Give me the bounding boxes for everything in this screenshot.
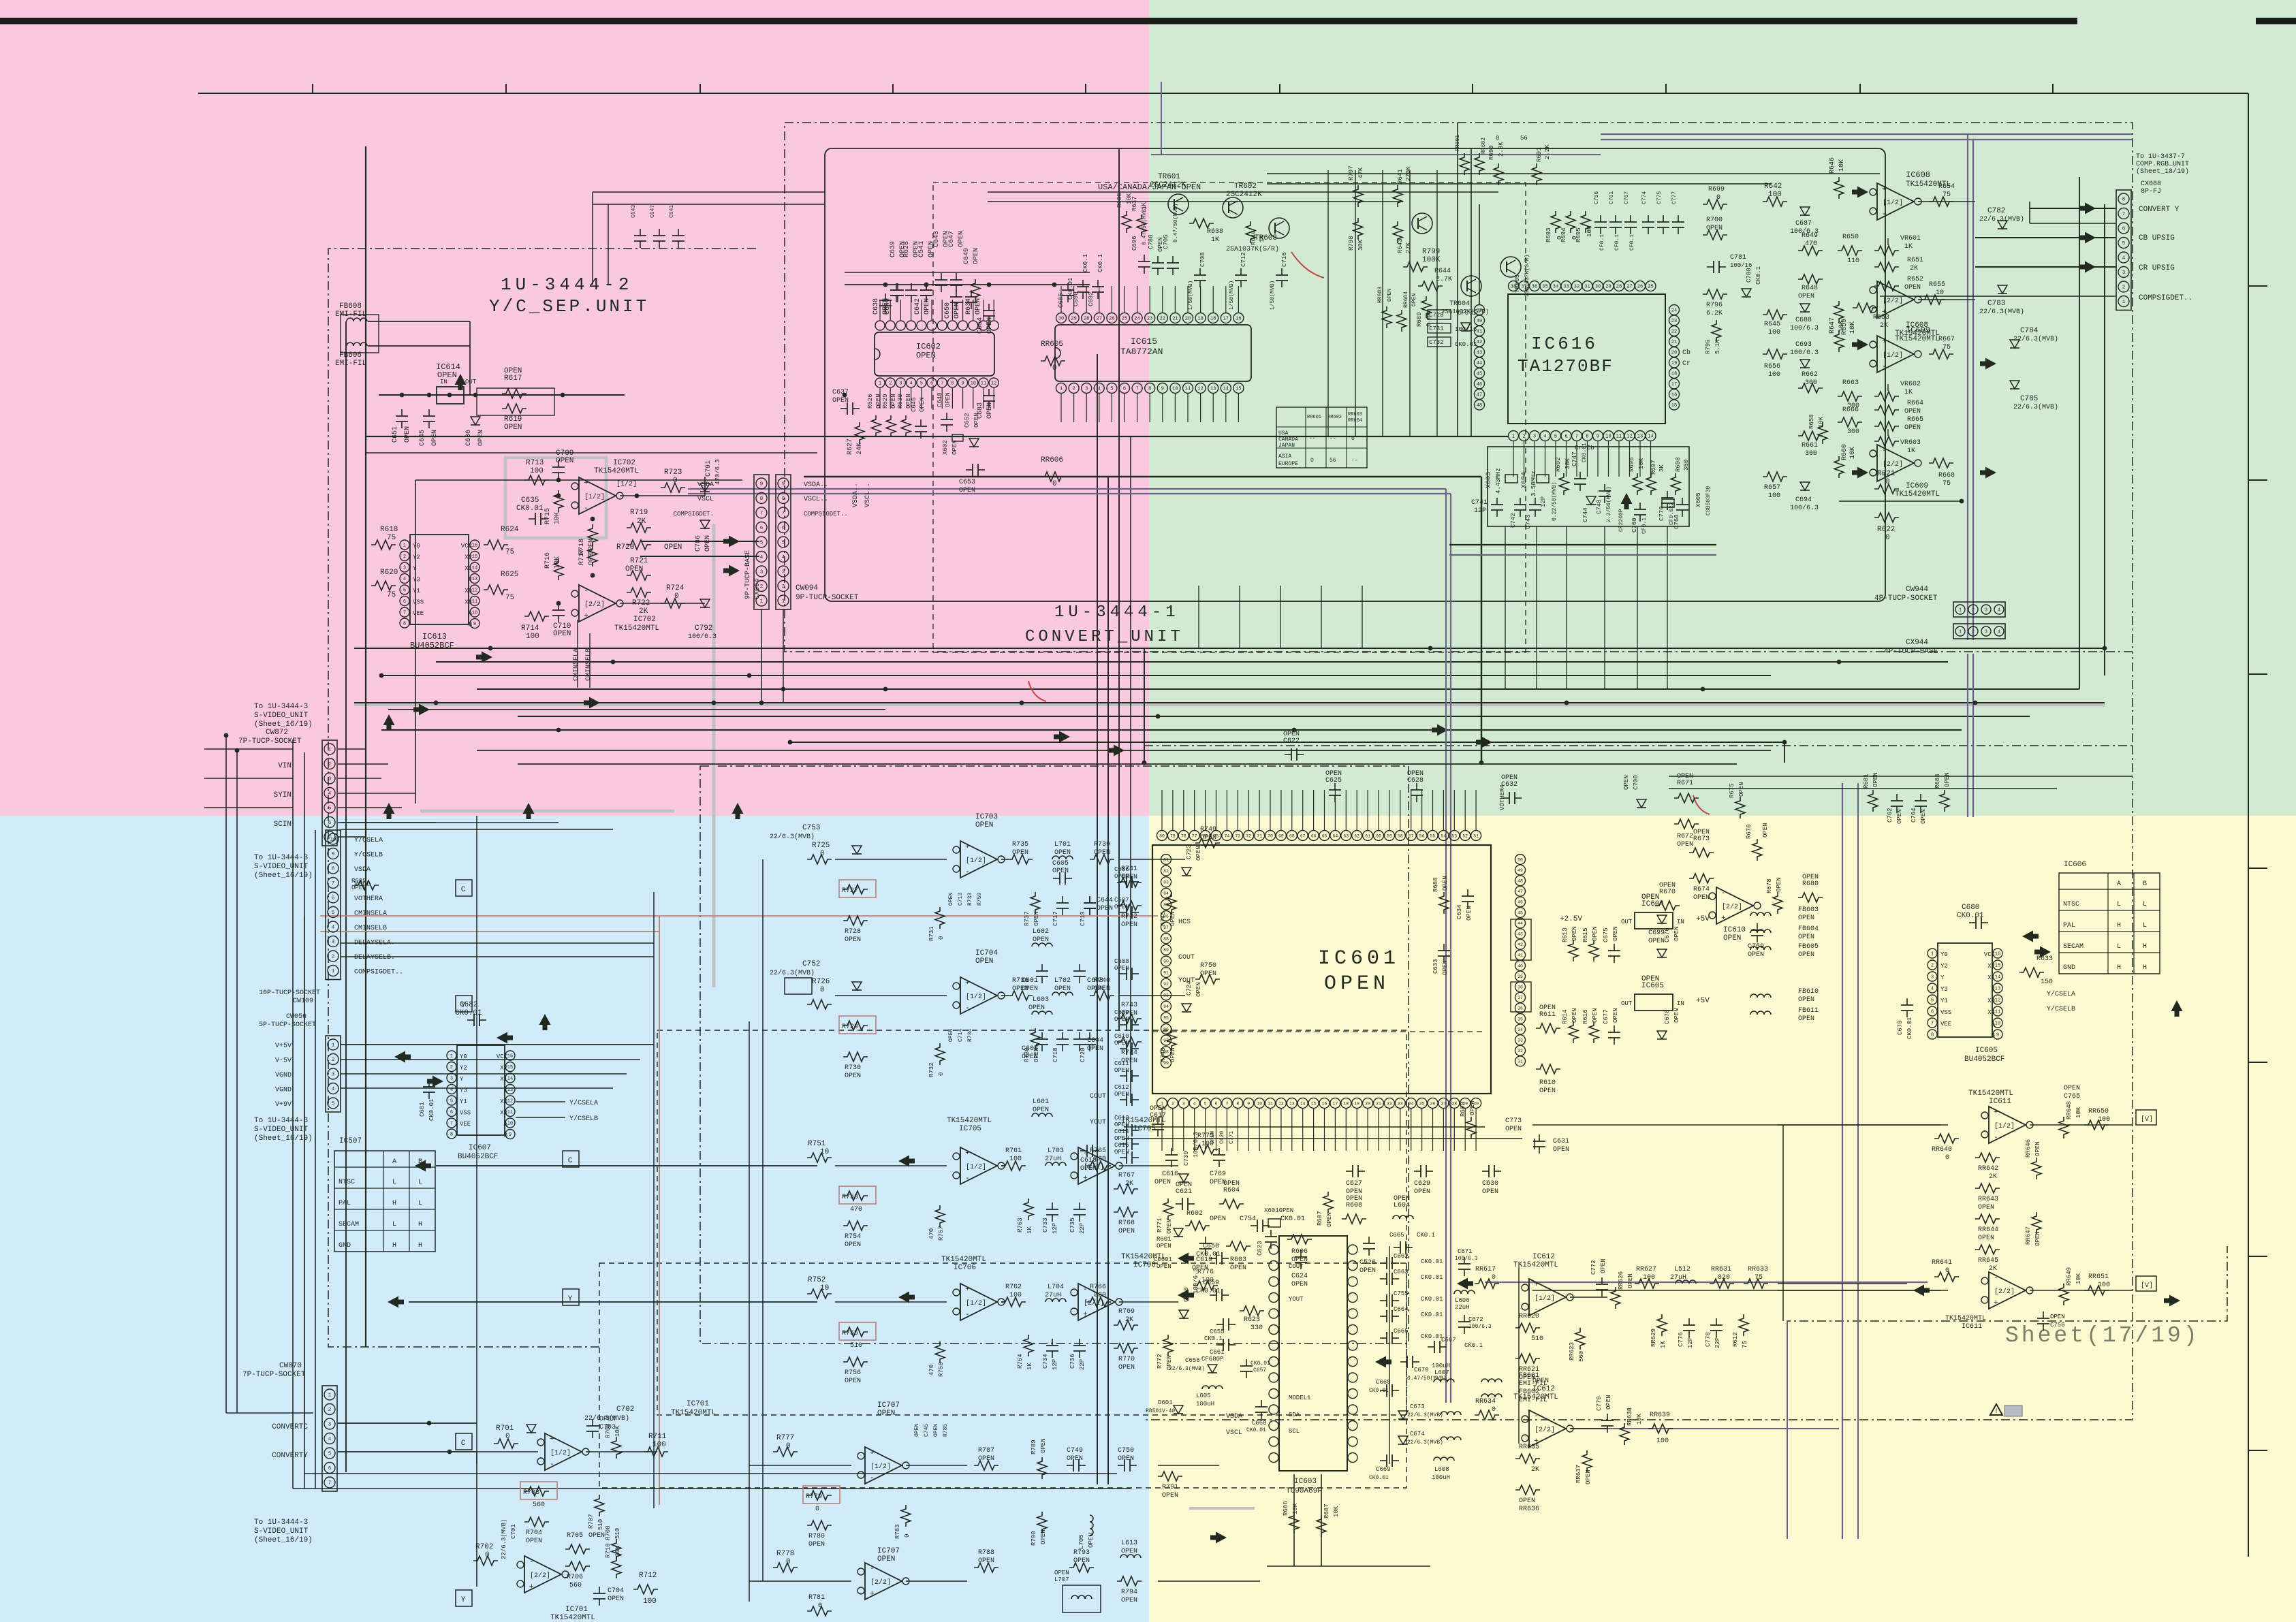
- svg-text:R643: R643: [1397, 238, 1404, 253]
- svg-text:38: 38: [1517, 985, 1523, 990]
- ruler tick top 2: [505, 84, 507, 93]
- svg-text:21: 21: [1671, 340, 1677, 345]
- svg-text:RR629: RR629: [1650, 1329, 1657, 1347]
- svg-text:R651: R651: [1907, 257, 1923, 264]
- svg-text:R608: R608: [1346, 1202, 1362, 1209]
- resistor R637 v: [1137, 214, 1146, 236]
- svg-text:R612: R612: [1732, 1332, 1739, 1347]
- resistor R717 vertical: [588, 524, 597, 546]
- svg-text:150: 150: [2041, 979, 2053, 986]
- svg-text:R697: R697: [1650, 460, 1657, 475]
- svg-text:12: 12: [991, 381, 996, 387]
- svg-text:C785: C785: [2020, 395, 2038, 403]
- svg-text:IC706: IC706: [954, 1264, 976, 1272]
- svg-text:5: 5: [332, 1102, 335, 1107]
- svg-text:C761: C761: [1609, 191, 1615, 204]
- svg-text:1: 1: [782, 599, 785, 605]
- svg-text:OPEN: OPEN: [1920, 809, 1927, 824]
- IC601 bottom pin 20: [1363, 1098, 1373, 1109]
- IC607 right pin 16: [505, 1051, 515, 1060]
- svg-text:OPEN: OPEN: [1539, 1004, 1556, 1012]
- capacitor C615: [1120, 1157, 1127, 1158]
- svg-text:OPEN: OPEN: [1080, 1165, 1097, 1173]
- svg-text:2SC2412K: 2SC2412K: [1150, 181, 1186, 189]
- svg-text:0: 0: [820, 850, 825, 858]
- svg-text:0.22/50(MVB): 0.22/50(MVB): [1552, 481, 1558, 521]
- purple green mid: [1151, 154, 1601, 155]
- svg-text:10K: 10K: [1838, 159, 1846, 172]
- IC603 left pin 14: [1269, 1453, 1278, 1463]
- capacitor C778 v: [1716, 1318, 1717, 1325]
- svg-text:RR637: RR637: [1575, 1465, 1582, 1483]
- svg-text:IC608: IC608: [1906, 170, 1930, 180]
- svg-text:46: 46: [1477, 382, 1482, 387]
- resistor R730: [843, 1052, 868, 1062]
- svg-text:R758: R758: [938, 1362, 945, 1377]
- svg-text:10K: 10K: [2075, 1107, 2082, 1118]
- svg-text:R625: R625: [501, 571, 518, 579]
- svg-text:OPEN: OPEN: [1346, 1188, 1362, 1196]
- wire IC603 bottom: [1293, 1474, 1295, 1566]
- capacitor C654: [988, 304, 990, 311]
- svg-text:22/6.3(MVB): 22/6.3(MVB): [770, 833, 815, 841]
- svg-text:100: 100: [652, 1441, 666, 1449]
- svg-text:15: 15: [472, 554, 477, 560]
- IC601 top pin 63: [1341, 831, 1351, 841]
- resistor R618: [371, 540, 396, 550]
- svg-text:C687: C687: [1795, 220, 1812, 227]
- svg-text:100/6.3: 100/6.3: [1790, 324, 1819, 332]
- svg-text:CF0.1: CF0.1: [1641, 518, 1648, 534]
- svg-text:16: 16: [1995, 952, 2000, 957]
- coil L601: [1032, 1113, 1052, 1117]
- resistor R613 v: [1569, 940, 1578, 961]
- wire row IC705: [835, 1165, 947, 1166]
- svg-text:1: 1: [1959, 630, 1962, 635]
- resistor R706: [565, 1561, 590, 1571]
- svg-text:OPEN: OPEN: [1359, 1267, 1376, 1275]
- IC601 bottom pin 25: [1417, 1098, 1427, 1109]
- wire main top2: [366, 452, 817, 454]
- svg-text:R772: R772: [1157, 1354, 1163, 1369]
- svg-text:90: 90: [1163, 959, 1169, 964]
- svg-text:IC701: IC701: [565, 1606, 588, 1614]
- svg-text:16: 16: [472, 543, 477, 549]
- resistor R629: [886, 415, 896, 437]
- svg-text:R658: R658: [1808, 414, 1815, 429]
- svg-text:EUROPE: EUROPE: [1278, 461, 1298, 467]
- svg-text:6: 6: [1215, 1101, 1218, 1106]
- capacitor C678 v: [1657, 1031, 1667, 1039]
- svg-text:82: 82: [1163, 869, 1169, 874]
- op-amp IC702b: [579, 585, 616, 622]
- IC601 top pin 67: [1298, 831, 1308, 841]
- pot VR603: [1874, 436, 1899, 446]
- connector CW944: [1953, 602, 2005, 617]
- IC601 right pin 32: [1515, 1045, 1526, 1055]
- bus arrow 6: [1476, 737, 1492, 748]
- svg-text:41: 41: [1517, 953, 1523, 958]
- svg-text:OPEN: OPEN: [2064, 1085, 2080, 1092]
- svg-text:C: C: [461, 1440, 466, 1448]
- svg-text:RR601: RR601: [1307, 415, 1321, 420]
- top border bar left: [0, 18, 2077, 25]
- svg-text:27: 27: [1441, 1101, 1446, 1106]
- svg-text:+: +: [870, 1590, 875, 1598]
- capacitor C755: [1380, 1300, 1387, 1301]
- wire blue arrows: [436, 1165, 817, 1166]
- capacitor C616: [1171, 1148, 1172, 1155]
- capacitor C708: [1199, 268, 1201, 275]
- svg-text:IC703: IC703: [975, 813, 998, 821]
- svg-text:100uH: 100uH: [1432, 1474, 1450, 1481]
- svg-text:[V]: [V]: [2141, 1282, 2153, 1290]
- svg-text:C678: C678: [1664, 1009, 1671, 1024]
- svg-text:100: 100: [1768, 492, 1780, 500]
- svg-text:SCIN: SCIN: [274, 821, 292, 829]
- IC616 top pin 32: [1572, 281, 1582, 291]
- bus wire 7: [381, 729, 1962, 731]
- capacitor C625: [1334, 783, 1336, 790]
- svg-text:93: 93: [1163, 993, 1169, 998]
- IC613 left pin 1: [400, 540, 409, 550]
- capacitor C642: [926, 283, 927, 290]
- EMI filter FB606: [347, 343, 367, 346]
- IC601 top pin 52: [1460, 831, 1471, 841]
- svg-text:C675: C675: [1603, 927, 1609, 942]
- arrow up CW872 c: [523, 803, 535, 819]
- IC602 top pin 8: [947, 321, 957, 330]
- svg-text:5: 5: [328, 806, 332, 812]
- svg-text:R704: R704: [526, 1529, 542, 1537]
- red mark 3: [1693, 795, 1710, 814]
- svg-text:TR602: TR602: [1234, 182, 1257, 191]
- diode D601: [1174, 1405, 1183, 1414]
- svg-text:0: 0: [1496, 135, 1499, 142]
- svg-text:69: 69: [1278, 833, 1284, 838]
- svg-text:Y2: Y2: [460, 1065, 467, 1072]
- resistor R720: [627, 540, 651, 550]
- ruler tick top 7: [1472, 84, 1473, 93]
- svg-text:39: 39: [1477, 308, 1482, 314]
- svg-text:12P: 12P: [1540, 496, 1547, 507]
- wire mid vertical 1: [1097, 354, 1098, 1484]
- svg-text:L: L: [392, 1179, 396, 1186]
- svg-text:OPEN: OPEN: [845, 936, 861, 944]
- IC601 bottom pin 4: [1189, 1098, 1199, 1109]
- resistor RR648 v: [2059, 1117, 2069, 1139]
- capacitor C724: [1182, 1004, 1191, 1012]
- svg-text:CF0.1: CF0.1: [1614, 234, 1620, 251]
- wire blue bottom 2: [304, 1473, 1117, 1474]
- svg-text:A: A: [469, 610, 473, 617]
- svg-text:R655: R655: [1929, 281, 1945, 289]
- svg-text:R755: R755: [842, 1330, 858, 1337]
- svg-text:X2: X2: [1987, 963, 1995, 970]
- svg-text:13: 13: [1289, 1101, 1295, 1106]
- svg-text:Y/CSELA: Y/CSELA: [2047, 990, 2075, 998]
- svg-text:56: 56: [1520, 135, 1528, 142]
- capacitor C656: [1208, 1365, 1217, 1373]
- IC601 right pin 46: [1515, 897, 1526, 907]
- IC616 bottom pin 2: [1519, 431, 1529, 441]
- svg-text:S-VIDEO_UNIT: S-VIDEO_UNIT: [254, 712, 309, 720]
- svg-text:R787: R787: [978, 1447, 994, 1454]
- svg-text:CB UPSIG: CB UPSIG: [2139, 234, 2175, 242]
- svg-text:R737: R737: [1024, 911, 1031, 926]
- capacitor C668: [1380, 1390, 1387, 1391]
- IC606 table: [2059, 873, 2160, 974]
- svg-text:75: 75: [1943, 191, 1951, 199]
- svg-text:IC702: IC702: [633, 616, 656, 624]
- svg-text:4: 4: [909, 381, 912, 387]
- svg-text:VSS: VSS: [1940, 1009, 1951, 1016]
- svg-text:COMPSIGDET.: COMPSIGDET.: [674, 511, 714, 518]
- svg-text:58: 58: [1398, 833, 1403, 838]
- svg-text:13: 13: [1637, 434, 1643, 440]
- gray bus shadow 2: [712, 524, 716, 987]
- svg-text:VR603: VR603: [1900, 439, 1921, 447]
- IC601 left pin 82: [1161, 865, 1171, 876]
- IC607 right pin 9: [505, 1130, 515, 1139]
- svg-text:S-VIDEO_UNIT: S-VIDEO_UNIT: [254, 1126, 309, 1134]
- svg-text:COMPSIGDET..: COMPSIGDET..: [354, 969, 403, 976]
- capacitor C659: [1210, 1294, 1216, 1296]
- svg-text:C717: C717: [1052, 911, 1059, 926]
- IC602 bottom pin 4: [907, 378, 916, 387]
- svg-text:4: 4: [1543, 434, 1546, 440]
- resistor R769: [1114, 1320, 1138, 1330]
- svg-text:IC607: IC607: [469, 1144, 491, 1152]
- resistor R732 v: [935, 1043, 945, 1065]
- svg-text:C662: C662: [1394, 1253, 1409, 1260]
- svg-text:38: 38: [1511, 285, 1516, 290]
- IC616 top pin 33: [1561, 281, 1571, 291]
- svg-text:ASIA: ASIA: [1278, 454, 1291, 460]
- capacitor C648: [946, 413, 947, 419]
- IC601 bottom pin 19: [1352, 1098, 1362, 1109]
- ruler tick top 9: [1859, 84, 1861, 93]
- svg-text:OPEN: OPEN: [1087, 1045, 1103, 1053]
- svg-text:16: 16: [507, 1054, 513, 1060]
- resistor R643 v: [1393, 221, 1402, 243]
- IC601 bottom pin 5: [1200, 1098, 1210, 1109]
- arrow left C658: [1178, 1253, 1194, 1265]
- svg-text:R793: R793: [1073, 1549, 1090, 1557]
- svg-text:[V]: [V]: [2141, 1115, 2153, 1124]
- svg-text:C642: C642: [914, 298, 922, 315]
- svg-text:+: +: [1994, 1299, 1998, 1307]
- svg-text:Y: Y: [413, 565, 417, 572]
- IC615 bottom pin 1: [1056, 383, 1067, 394]
- crystal X604: [1537, 475, 1549, 483]
- svg-text:100: 100: [1009, 1156, 1022, 1163]
- capacitor C606: [1120, 881, 1127, 882]
- svg-text:C659: C659: [1203, 1279, 1219, 1287]
- svg-text:VSDA: VSDA: [354, 866, 371, 874]
- svg-text:C705: C705: [1163, 234, 1169, 249]
- svg-text:OPEN: OPEN: [1067, 1455, 1083, 1463]
- svg-text:CX944: CX944: [1906, 639, 1928, 647]
- regulator IC614: [437, 387, 464, 404]
- svg-text:100/6.3: 100/6.3: [1790, 349, 1819, 357]
- svg-text:H: H: [418, 1221, 422, 1228]
- svg-text:9P-TUCP-BASE: 9P-TUCP-BASE: [744, 550, 752, 599]
- svg-text:C654: C654: [977, 317, 984, 334]
- svg-text:66: 66: [1311, 833, 1317, 838]
- IC615 top pin 28: [1082, 313, 1092, 323]
- transistor TR602: [1223, 197, 1243, 218]
- svg-text:R628: R628: [903, 241, 911, 257]
- svg-text:OPEN: OPEN: [556, 457, 573, 465]
- svg-text:5: 5: [450, 1099, 453, 1104]
- svg-text:IC609: IC609: [1906, 325, 1930, 335]
- svg-text:R724: R724: [666, 584, 685, 592]
- svg-text:RR606: RR606: [1041, 456, 1063, 464]
- connector CX088: [2116, 190, 2131, 311]
- capacitor C719 v: [1089, 896, 1090, 903]
- inner rounded block boundary: [825, 148, 1885, 601]
- resistor R780: [807, 1521, 832, 1530]
- svg-text:34: 34: [1553, 285, 1558, 290]
- capacitor C704: [599, 1587, 600, 1593]
- op-amp IC706a: [960, 1284, 997, 1320]
- svg-text:11: 11: [472, 599, 477, 605]
- wire mid vertical 3: [1118, 148, 1120, 1030]
- coil L602: [1032, 943, 1052, 947]
- svg-text:-: -: [965, 1175, 970, 1183]
- capacitor C747: [1579, 472, 1581, 479]
- svg-text:Y/CSELA: Y/CSELA: [569, 1099, 598, 1107]
- svg-text:5: 5: [920, 381, 923, 387]
- capacitor C526: [1368, 1237, 1370, 1243]
- resistor R615 v: [1589, 940, 1599, 961]
- svg-text:86: 86: [1163, 914, 1169, 919]
- IC601 bottom pin 23: [1395, 1098, 1405, 1109]
- svg-text:95: 95: [1163, 1016, 1169, 1021]
- svg-text:6: 6: [332, 896, 335, 902]
- svg-text:7: 7: [1575, 434, 1578, 440]
- svg-text:20: 20: [1671, 351, 1677, 356]
- svg-text:2: 2: [1522, 434, 1525, 440]
- IC603 left pin 1: [1269, 1245, 1278, 1254]
- IC615 bottom pin 4: [1094, 383, 1104, 394]
- svg-text:IC601: IC601: [1318, 947, 1400, 970]
- svg-text:C615: C615: [1114, 1142, 1129, 1149]
- wire row IC703: [835, 859, 947, 860]
- svg-text:C649: C649: [963, 248, 971, 264]
- resistor R621: [1874, 484, 1899, 494]
- capacitor C612: [1120, 1099, 1127, 1100]
- coil L707 box: [1063, 1585, 1101, 1612]
- capacitor C748: [1604, 484, 1605, 491]
- svg-text:R768: R768: [1118, 1220, 1135, 1227]
- svg-text:4: 4: [1931, 987, 1934, 992]
- wire green down1: [1457, 123, 1458, 436]
- IC601 bottom pin 26: [1428, 1098, 1438, 1109]
- green quadrant background: [1149, 0, 2296, 816]
- svg-text:10K: 10K: [1292, 1503, 1299, 1514]
- svg-text:RR603: RR603: [1377, 287, 1383, 303]
- svg-text:VSS: VSS: [460, 1110, 471, 1117]
- IC601 bottom pin 17: [1330, 1098, 1340, 1109]
- svg-text:9P-TUCP-SOCKET: 9P-TUCP-SOCKET: [796, 594, 859, 602]
- IC603 left pin 10: [1269, 1389, 1278, 1399]
- svg-text:36: 36: [1517, 1006, 1523, 1011]
- svg-text:OPEN: OPEN: [1118, 1455, 1134, 1463]
- svg-text:C638: C638: [872, 298, 880, 315]
- svg-text:OPEN: OPEN: [808, 1541, 825, 1548]
- svg-text:C713: C713: [958, 893, 964, 906]
- svg-text:R624: R624: [501, 526, 519, 534]
- capacitor C601: [1041, 964, 1043, 971]
- svg-text:0: 0: [938, 936, 945, 940]
- resistor R723: [661, 483, 685, 492]
- svg-text:7: 7: [1135, 387, 1138, 392]
- svg-text:13: 13: [507, 1087, 513, 1093]
- svg-text:OPEN: OPEN: [1114, 1122, 1129, 1128]
- resistor R675 v: [1735, 797, 1745, 818]
- resistor R701: [494, 1439, 518, 1448]
- svg-text:FB605: FB605: [1798, 943, 1819, 951]
- resistor R699: [1703, 200, 1727, 209]
- blue dashed box IC707: [599, 1263, 1406, 1488]
- svg-text:Y: Y: [461, 1002, 466, 1010]
- svg-text:300: 300: [1805, 379, 1817, 387]
- svg-text:OPEN: OPEN: [1798, 293, 1814, 300]
- IC601 left pin 81: [1161, 855, 1171, 865]
- svg-text:IC609: IC609: [1906, 482, 1928, 490]
- resistor R614 v: [1569, 1021, 1578, 1043]
- red mark 2: [1028, 681, 1046, 701]
- svg-text:2K: 2K: [1125, 1316, 1133, 1324]
- svg-text:R641: R641: [1397, 169, 1404, 184]
- resistor R725: [807, 855, 832, 864]
- svg-text:C: C: [568, 1157, 573, 1165]
- capacitor C637: [840, 408, 847, 409]
- svg-text:54: 54: [1441, 833, 1446, 838]
- IC616 top pin 35: [1540, 281, 1550, 291]
- capacitor C660: [1261, 1400, 1262, 1407]
- svg-text:100/16: 100/16: [1455, 326, 1477, 333]
- IC616 top pin 27: [1624, 281, 1635, 291]
- IC601 top pin 62: [1352, 831, 1362, 841]
- svg-text:9: 9: [1996, 1033, 1999, 1038]
- svg-text:36: 36: [1532, 285, 1537, 290]
- svg-text:1: 1: [1959, 608, 1962, 614]
- svg-text:C743: C743: [1525, 514, 1532, 529]
- svg-text:C742: C742: [1510, 513, 1517, 528]
- svg-text:4P-TUCP-SOCKET: 4P-TUCP-SOCKET: [1874, 594, 1938, 603]
- svg-text:11: 11: [1616, 434, 1622, 440]
- svg-text:0: 0: [1492, 1274, 1496, 1282]
- svg-text:22/6.3(MVB): 22/6.3(MVB): [770, 969, 815, 977]
- resistor R676 v: [1752, 839, 1762, 861]
- purple bus pair h2: [1601, 139, 2133, 140]
- svg-text:3: 3: [332, 1072, 335, 1078]
- resistor R627: [855, 422, 864, 444]
- svg-text:R688: R688: [1432, 877, 1439, 892]
- svg-text:79: 79: [1170, 833, 1176, 838]
- IC603 left pin 7: [1269, 1341, 1278, 1350]
- svg-text:6: 6: [403, 599, 406, 605]
- arrow left IC607b: [497, 1032, 513, 1044]
- resistor R603: [1226, 1241, 1251, 1251]
- svg-text:R721: R721: [630, 557, 648, 565]
- arrow right IC611 out: [2164, 1295, 2180, 1307]
- svg-text:+: +: [584, 612, 588, 620]
- svg-text:R735: R735: [1012, 841, 1028, 848]
